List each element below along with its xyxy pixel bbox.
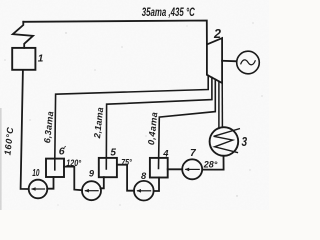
pump 10: [29, 180, 48, 199]
svg-text:2: 2: [213, 27, 221, 41]
label 6 tick mark: [64, 146, 66, 147]
svg-text:3: 3: [242, 135, 248, 149]
wire generator shaft: [222, 60, 236, 63]
pump 8 arrow: [138, 190, 151, 192]
wire turbine exhaust duct to condenser: [218, 82, 220, 129]
svg-text:75°: 75°: [121, 157, 132, 167]
heater 5: [99, 158, 117, 177]
svg-text:5: 5: [110, 147, 116, 158]
wire extraction 3 (0.4 ata) turbine to heater 4: [159, 79, 216, 168]
svg-text:120°: 120°: [66, 158, 81, 168]
wire main steam line top: [23, 21, 207, 45]
pump 9: [82, 181, 101, 200]
svg-text:1: 1: [38, 53, 44, 64]
wire extraction 2 (2.1 ata) turbine to heater 5: [106, 78, 212, 170]
svg-text:35ата ,435 °C: 35ата ,435 °C: [142, 5, 195, 19]
condenser 3: [210, 127, 239, 156]
scan smudge left edge: [0, 108, 2, 210]
turbine 2: [207, 38, 222, 83]
wire extraction 1 (6.3 ata) turbine to heater 6: [55, 76, 208, 170]
generator tilde symbol: [241, 60, 255, 65]
wire pump 8 to heater 5: [117, 165, 134, 191]
wire heater 4 drain to pump 8: [154, 178, 159, 192]
svg-text:4: 4: [162, 149, 169, 159]
pump 8: [134, 181, 154, 201]
superheater zigzag at boiler outlet: [13, 22, 33, 48]
condenser cooling coil: [214, 129, 240, 153]
heater 4: [150, 158, 168, 178]
wire pump 9 to heater 6: [64, 167, 82, 191]
wire condensate condenser to pump 7: [202, 156, 223, 170]
boiler 1: [12, 48, 35, 70]
svg-text:10: 10: [32, 168, 40, 179]
pump 7 arrow: [186, 168, 199, 170]
heater 6: [46, 159, 64, 177]
pump 9 arrow: [86, 190, 99, 192]
pump 10 arrow: [32, 188, 44, 190]
svg-text:6: 6: [59, 146, 65, 158]
wire heater 6 drain to pump 10: [47, 177, 53, 189]
wire pump 7 to heater 4: [168, 168, 183, 170]
svg-text:8: 8: [141, 171, 147, 181]
svg-text:28°: 28°: [203, 159, 218, 170]
wire feedwater pump 10 to boiler: [21, 70, 29, 189]
generator G: [237, 51, 260, 74]
svg-text:9: 9: [89, 168, 95, 178]
wire heater 5 drain to pump 9: [101, 177, 104, 188]
pump 7: [182, 159, 202, 179]
